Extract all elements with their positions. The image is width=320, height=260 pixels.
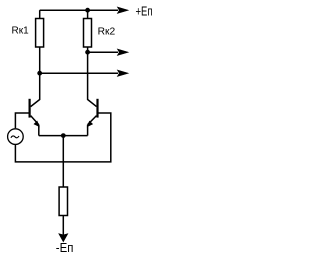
node E: emitter junction	[61, 133, 66, 138]
node: rail junction (top of Rk2)	[85, 8, 90, 13]
resistor Rk2	[84, 19, 92, 48]
arrow: -Ep terminal	[59, 234, 68, 242]
arrow: +Ep terminal	[117, 7, 128, 13]
wire: emitter rail	[39, 135, 88, 137]
source G1 (AC signal source)	[8, 129, 24, 145]
arrow: left output terminal	[117, 70, 128, 76]
wire: Rk2 bottom lead	[87, 47, 89, 52]
wire: Rk2 top lead	[87, 10, 89, 18]
node B: right collector junction	[85, 50, 90, 55]
wire: VT1 collector lead	[31, 73, 40, 106]
svg-text:Rк2: Rк2	[98, 27, 116, 38]
wire: left output line	[40, 72, 118, 74]
svg-text:Rк1: Rк1	[12, 25, 30, 36]
wire: emitter junction to Re	[62, 136, 64, 187]
wire: VT2 collector lead	[88, 52, 97, 106]
wire: Re bottom lead	[62, 216, 64, 235]
wire: right output line	[88, 51, 118, 53]
svg-text:-Еп: -Еп	[56, 241, 74, 255]
wire: Rk1 top lead	[39, 10, 41, 18]
wire: VT2 emitter drop	[87, 125, 89, 136]
wire: +Ep top rail	[40, 9, 118, 11]
transistor VT1 (left, npn)	[30, 99, 39, 127]
wire: VT1 emitter drop	[38, 125, 40, 136]
arrow: right output terminal	[117, 49, 128, 55]
transistor VT2 (right, npn, mirrored)	[88, 99, 98, 127]
resistor Re (emitter resistor)	[59, 187, 67, 216]
wire: VT1 base lead	[15, 113, 28, 128]
wire: Rk1 bottom lead	[39, 47, 41, 73]
wire: source bottom to VT2 base	[15, 113, 110, 162]
svg-text:+Еп: +Еп	[136, 5, 153, 19]
resistor Rk1	[36, 19, 44, 48]
node A: left collector junction	[37, 71, 42, 76]
